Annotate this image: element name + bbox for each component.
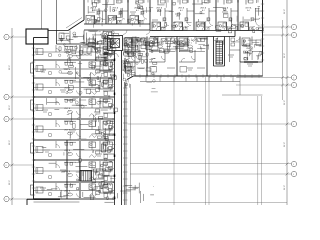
- elevator shaft: [108, 36, 123, 51]
- top wing south band party walls: [146, 37, 240, 77]
- clutter NE corner unit: [243, 39, 262, 60]
- svg-text:4: 4: [293, 35, 294, 37]
- clutter junction: [59, 31, 114, 61]
- clutter along top wing corridor north side east: [161, 22, 263, 33]
- left wing mid-row sub-walls: [34, 52, 80, 202]
- left wing east party walls: [0, 0, 1, 1]
- partition lines bottom rows: [61, 183, 154, 203]
- south wall window ticks: [140, 74, 259, 77]
- left wing corridor walls: [115, 51, 122, 206]
- svg-text:UNIT B: UNIT B: [64, 130, 71, 132]
- svg-text:A-1: A-1: [180, 9, 183, 12]
- clutter top wing north rooms: [88, 1, 228, 17]
- corridor junction marks: [104, 51, 119, 58]
- svg-text:LOBBY: LOBBY: [72, 37, 79, 39]
- stairwell S3 with treads: [80, 144, 106, 181]
- left wing west unit interiors: [34, 45, 115, 199]
- svg-text:4: 4: [293, 124, 294, 126]
- svg-text:UNIT B: UNIT B: [64, 150, 71, 152]
- svg-text:A-1: A-1: [92, 9, 95, 12]
- utility block near junction: [141, 38, 146, 49]
- clutter deep part rooms: [126, 37, 224, 53]
- svg-text:A-1: A-1: [224, 9, 227, 12]
- micro text blobs: [40, 12, 253, 190]
- partition lines junction: [57, 31, 113, 45]
- svg-text:28'-0": 28'-0": [9, 140, 11, 145]
- bottom horizontal grid line: [156, 202, 287, 204]
- svg-text:4: 4: [293, 174, 294, 176]
- svg-text:4: 4: [293, 85, 294, 87]
- corridor east end cap: [230, 31, 240, 51]
- partition lines top wing east section: [153, 4, 260, 28]
- junction rooms: [57, 31, 115, 49]
- left wing west party walls: [34, 59, 115, 199]
- clutter east band rooms: [123, 40, 135, 76]
- east wall window ticks: [123, 88, 128, 200]
- laundry room: [81, 38, 105, 61]
- left grid line extensions: [9, 37, 33, 199]
- stair S1 side walls: [214, 37, 225, 67]
- svg-text:28'-0": 28'-0": [9, 180, 11, 185]
- clutter junction column: [123, 44, 158, 92]
- svg-text:24'-8": 24'-8": [284, 53, 286, 58]
- svg-text:28'-0": 28'-0": [9, 105, 11, 110]
- right grid line extensions: [128, 27, 292, 174]
- svg-text:24'-8": 24'-8": [284, 100, 286, 105]
- svg-text:24'-8": 24'-8": [284, 142, 286, 147]
- svg-text:UNIT B: UNIT B: [64, 88, 71, 90]
- svg-text:UNIT B: UNIT B: [64, 108, 71, 110]
- svg-text:4: 4: [293, 164, 294, 166]
- north edge window ticks: [88, 0, 258, 3]
- svg-text:A-1: A-1: [247, 9, 250, 12]
- svg-text:28'-0": 28'-0": [9, 65, 11, 70]
- partition lines deep part: [128, 38, 209, 52]
- partition lines NE corner: [244, 39, 261, 60]
- svg-text:8: 8: [6, 97, 7, 99]
- east wall window ticks top wing: [261, 4, 264, 60]
- top wing north band party walls: [105, 0, 238, 31]
- top wing corridor walls: [84, 24, 263, 37]
- west wall window ticks: [32, 48, 35, 195]
- svg-text:24'-8": 24'-8": [284, 185, 286, 190]
- clutter along top wing corridor south side: [125, 38, 239, 50]
- partition lines left wing west: [42, 45, 112, 197]
- svg-text:8: 8: [6, 37, 7, 39]
- svg-text:A-1: A-1: [136, 9, 139, 12]
- lower section divider wall: [66, 140, 67, 199]
- partition lines top wing north band: [88, 4, 260, 22]
- vertical grid lines lower right quadrant: [174, 77, 261, 205]
- svg-text:24'-8": 24'-8": [284, 9, 286, 14]
- left wing corridor door arcs: [111, 54, 126, 186]
- grid bubbles left column: [4, 34, 9, 201]
- svg-text:UNIT B: UNIT B: [64, 191, 71, 193]
- svg-text:4: 4: [293, 77, 294, 79]
- junction column rooms east of corridor: [122, 37, 136, 77]
- svg-text:4: 4: [293, 27, 294, 29]
- east wall bay windows: [0, 0, 1, 1]
- svg-text:UNIT B: UNIT B: [64, 69, 71, 71]
- clutter along left wing corridor west side: [95, 48, 117, 200]
- top wing corridor door arcs: [88, 20, 240, 41]
- clutter along top wing corridor north side: [93, 17, 140, 28]
- right secondary dimension line: [281, 20, 284, 100]
- clutter junction column west: [96, 32, 120, 52]
- building exterior walls: [26, 0, 263, 205]
- svg-text:A-1: A-1: [202, 9, 205, 12]
- bathroom cluster east of elevator: [125, 38, 139, 53]
- svg-text:8: 8: [6, 119, 7, 121]
- svg-text:8: 8: [6, 199, 7, 201]
- west wall bay windows: [31, 63, 34, 195]
- partition lines left wing east: [124, 58, 134, 74]
- stairwell S1 with treads: [216, 41, 223, 64]
- left vertical dimension line: [9, 28, 13, 205]
- grid bubbles right column: [291, 24, 296, 176]
- top wing south band unit interiors: [124, 37, 261, 73]
- left wing east unit interiors: [0, 0, 1, 1]
- right vertical dimension line: [284, 0, 288, 205]
- patio edges south of deep wing: [140, 76, 240, 82]
- svg-text:8: 8: [6, 165, 7, 167]
- clutter left wing room interiors: [58, 47, 96, 200]
- top wing north band unit interiors: [86, 0, 263, 31]
